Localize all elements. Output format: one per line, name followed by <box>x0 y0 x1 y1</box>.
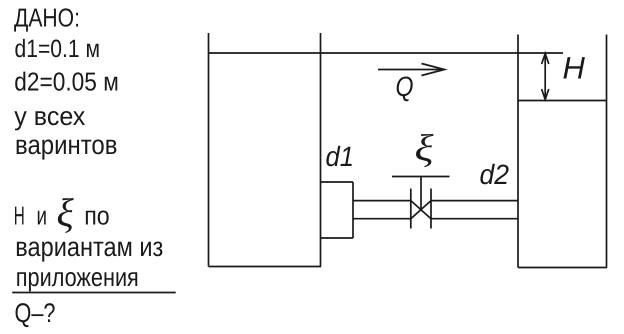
svg-text:Q: Q <box>396 71 414 102</box>
svg-text:и: и <box>37 201 48 231</box>
svg-text:ξ: ξ <box>415 128 435 170</box>
svg-text:d2=0.05 м: d2=0.05 м <box>14 67 119 97</box>
svg-text:ДАНО:: ДАНО: <box>14 3 80 33</box>
svg-text:d1=0.1 м: d1=0.1 м <box>15 35 101 63</box>
svg-text:Q–?: Q–? <box>15 298 56 328</box>
svg-text:у всех: у всех <box>14 101 85 131</box>
svg-text:d2: d2 <box>480 159 510 190</box>
svg-text:по: по <box>84 201 110 231</box>
svg-text:приложения: приложения <box>16 262 139 292</box>
svg-text:варинтов: варинтов <box>15 130 118 160</box>
svg-text:вариантам из: вариантам из <box>15 232 163 262</box>
svg-text:d1: d1 <box>326 141 355 172</box>
svg-text:H: H <box>563 51 586 86</box>
svg-text:ξ: ξ <box>57 190 75 235</box>
svg-text:Н: Н <box>14 201 25 231</box>
